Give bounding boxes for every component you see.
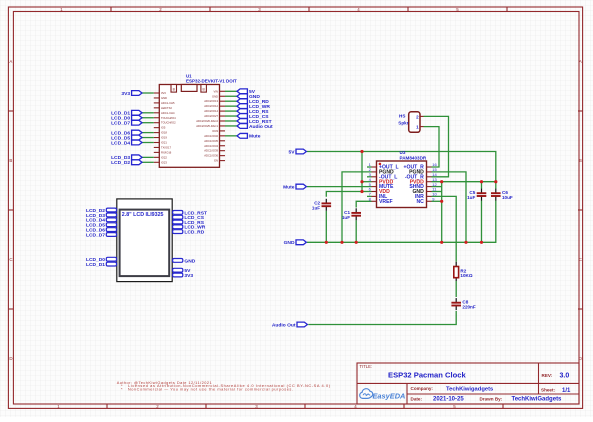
op-amp U3 PAM8403DR body: [377, 161, 427, 208]
svg-text:LCD_D4: LCD_D4: [111, 140, 130, 146]
wire SHND pin12: [432, 186, 442, 188]
LCD pin LCD_WR: [173, 225, 206, 231]
ESP32 module U1 body: [159, 85, 219, 168]
U1 reference designator: [186, 73, 192, 78]
svg-text:ADC2/IO12: ADC2/IO12: [204, 104, 218, 108]
svg-text:IO23: IO23: [161, 160, 167, 164]
net flag LCD_CS: [237, 114, 269, 120]
LCD pin GND: [173, 258, 196, 264]
wire to U1 left pin 10 (LCD_D5): [142, 137, 154, 139]
capacitor C2: [312, 199, 331, 211]
svg-text:1uF: 1uF: [312, 205, 320, 210]
U3 pin numbers right: [432, 162, 437, 201]
svg-text:ADC1-CH4: ADC1-CH4: [161, 111, 175, 115]
wire C5 top: [481, 182, 483, 189]
wire to U1 left pin 1 (3V3): [142, 92, 154, 94]
LCD pin LCD_D6: [86, 228, 117, 234]
svg-text:10uF: 10uF: [502, 195, 513, 200]
svg-text:EasyEDA: EasyEDA: [373, 392, 406, 401]
svg-text:Drawn By:: Drawn By:: [480, 396, 503, 401]
svg-text:ADC1-CH5: ADC1-CH5: [161, 101, 175, 105]
wire to U1 right pin (Audio Out): [225, 125, 237, 127]
svg-text:Mute: Mute: [283, 184, 295, 190]
U3 pin names right: [404, 165, 425, 205]
svg-text:3V3: 3V3: [161, 91, 166, 95]
LCD pin LCD_D7: [86, 232, 117, 238]
net flag LCD_D2: [111, 160, 142, 166]
net flag LCD_RD: [237, 99, 269, 105]
capacitor C5: [467, 189, 486, 201]
author / license note: [117, 380, 331, 392]
LCD pin LCD_D0: [86, 257, 117, 263]
title text: [360, 364, 572, 403]
U1 pin stubs right: [220, 91, 226, 160]
wire C2 bottom: [325, 211, 327, 243]
svg-text:TechKiwiGadgets: TechKiwiGadgets: [512, 397, 563, 403]
svg-text:HS: HS: [399, 114, 405, 119]
U3 reference designator: [400, 150, 406, 155]
svg-text:TITLE:: TITLE:: [360, 364, 373, 369]
wire to U1 right pin (Mute): [225, 135, 237, 137]
LCD pin LCD_D4: [86, 218, 117, 224]
U1 part name: [186, 79, 237, 84]
net flag Mute (amp): [283, 184, 306, 190]
net flag 5V (amp): [289, 149, 307, 155]
svg-text:TechKiwigadgets: TechKiwigadgets: [446, 386, 493, 392]
svg-text:5V: 5V: [289, 149, 296, 155]
net flag GND: [237, 94, 260, 100]
wire stub +OUT_L pin1: [367, 166, 372, 168]
svg-text:ADC1/IO36: ADC1/IO36: [204, 154, 218, 158]
wire to U1 right pin (LCD_RS): [225, 110, 237, 112]
U1 boot button right: [201, 85, 207, 93]
svg-text:VIN: VIN: [214, 89, 219, 93]
svg-text:ADC2/IO14: ADC2/IO14: [204, 109, 218, 113]
svg-text:ADC1/IO32: ADC1/IO32: [204, 134, 218, 138]
svg-text:NC: NC: [416, 199, 424, 205]
svg-text:3.0: 3.0: [560, 373, 570, 380]
svg-text:Audio Out: Audio Out: [249, 124, 273, 130]
svg-text:ADC1/IO35: ADC1/IO35: [204, 139, 218, 143]
svg-text:1/1: 1/1: [562, 388, 571, 394]
svg-text:ADC2/IO13: ADC2/IO13: [204, 99, 218, 103]
wire C1 bottom: [355, 220, 357, 242]
svg-text:LCD_D7: LCD_D7: [86, 232, 105, 238]
wire PGND left pin2: [342, 172, 372, 242]
svg-text:LCD_D2: LCD_D2: [111, 160, 130, 166]
svg-text:Sheet:: Sheet:: [541, 388, 556, 393]
U1 USB connector: [181, 85, 197, 92]
net flag LCD_D7: [111, 120, 142, 126]
U3 pin stubs: [372, 167, 432, 201]
net flag LCD_D3: [111, 155, 142, 161]
wire to U1 left pin 15 (LCD_D2): [142, 161, 154, 163]
svg-text:GND: GND: [184, 258, 195, 264]
wire speaker pin2 to -OUT_R: [424, 116, 449, 176]
title block: [357, 363, 579, 404]
net flag LCD_D4: [111, 140, 142, 146]
wire to U1 left pin 11 (LCD_D4): [142, 142, 154, 144]
svg-text:Date:: Date:: [411, 396, 423, 401]
svg-text:Mute: Mute: [249, 134, 261, 140]
svg-text:* NonCommercial — You may no: * NonCommercial — You may not use the ma…: [121, 387, 293, 392]
svg-text:10KΩ: 10KΩ: [460, 273, 472, 278]
net flag LCD_D5: [111, 135, 142, 141]
svg-text:2021-10-25: 2021-10-25: [433, 397, 464, 403]
wire GND rail: [307, 201, 496, 243]
svg-text:TX/IO17: TX/IO17: [161, 145, 172, 149]
svg-text:ESP32-DEVKIT-V1 DOIT: ESP32-DEVKIT-V1 DOIT: [186, 79, 237, 84]
wire C5 bottom: [481, 201, 483, 243]
wire R2 to C8: [455, 281, 457, 297]
svg-text:C: C: [579, 257, 582, 262]
LCD pin LCD_CS: [173, 215, 205, 221]
net flag LCD_RS: [237, 109, 269, 115]
svg-text:1uF: 1uF: [342, 215, 350, 220]
svg-text:D: D: [9, 356, 12, 361]
svg-text:TOUCH/IO2: TOUCH/IO2: [161, 121, 176, 125]
wire VREF pin8 to C1: [356, 201, 371, 207]
wire PGND right pin15: [432, 172, 467, 242]
LCD part name: [122, 212, 164, 218]
U3 part name: [400, 155, 427, 160]
wire VDD pin6: [362, 191, 372, 193]
svg-text:GND: GND: [161, 96, 167, 100]
svg-text:RX/IO16: RX/IO16: [161, 150, 172, 154]
LCD screen inner rect: [120, 210, 170, 277]
wire to U1 right pin (LCD_RD): [225, 100, 237, 102]
svg-text:REV:: REV:: [542, 373, 553, 378]
net flag LCD_D1: [111, 110, 142, 116]
wire stub INL pin7: [367, 195, 372, 197]
wire stub -OUT_L pin3: [367, 176, 372, 178]
LCD pin LCD_D2: [86, 208, 117, 214]
svg-text:A: A: [579, 59, 582, 64]
capacitor C8: [451, 298, 475, 310]
junction dots: [325, 150, 498, 244]
svg-text:1uF: 1uF: [467, 195, 475, 200]
net flag Audio Out (amp): [272, 322, 308, 328]
wire to U1 right pin (LCD_CS): [225, 115, 237, 117]
svg-text:ADC1/IO39: ADC1/IO39: [204, 149, 218, 153]
svg-text:Spkr: Spkr: [398, 121, 408, 126]
wire PVDD left pin4: [362, 181, 372, 183]
wire to U1 left pin 6 (LCD_D0): [142, 117, 154, 119]
svg-text:PAM8403DR: PAM8403DR: [400, 155, 427, 160]
U1 pin stubs left: [154, 93, 160, 162]
net flag LCD_D6: [111, 130, 142, 136]
net flag GND (amp): [284, 240, 307, 246]
svg-text:LCD_D7: LCD_D7: [111, 121, 130, 127]
wire PVDD right rail pin13: [432, 181, 496, 183]
wire INR pin10 to R2: [432, 196, 457, 261]
wire to U1 left pin 5 (LCD_D1): [142, 112, 154, 114]
svg-text:GND: GND: [284, 240, 295, 246]
LCD pin 5V: [173, 268, 192, 274]
svg-text:ESP32 Pacman Clock: ESP32 Pacman Clock: [388, 371, 466, 380]
svg-text:3V3: 3V3: [121, 91, 130, 97]
net flag LCD_RST: [237, 119, 272, 125]
svg-text:IO22: IO22: [161, 155, 167, 159]
EasyEDA logo: [360, 389, 406, 401]
wire to U1 left pin 9 (LCD_D6): [142, 132, 154, 134]
svg-text:IO21: IO21: [161, 141, 167, 145]
wire NC pin9: [432, 200, 442, 202]
resistor R2: [454, 262, 473, 281]
wire to U1 left pin 7 (LCD_D7): [142, 122, 154, 124]
LCD module outer body: [117, 199, 172, 282]
wire C2 top to VDD node: [326, 192, 362, 197]
wire Mute to pin5: [307, 186, 372, 188]
svg-text:LCD_D1: LCD_D1: [86, 262, 105, 268]
LCD pin LCD_RD: [173, 230, 205, 236]
LCD pin LCD_D5: [86, 223, 117, 229]
svg-text:B: B: [9, 158, 12, 163]
wire to U1 right pin (LCD_RST): [225, 120, 237, 122]
net flag LCD_WR: [237, 104, 270, 110]
U1 boot button left: [171, 85, 177, 93]
svg-text:ADC2/IO27: ADC2/IO27: [204, 114, 218, 118]
svg-text:EN: EN: [214, 159, 218, 163]
svg-text:B: B: [579, 158, 582, 163]
wire 5V rail: [307, 152, 496, 182]
net flag 5V: [237, 89, 256, 95]
svg-text:ADC2/IO25-DAC1: ADC2/IO25-DAC1: [196, 124, 218, 128]
svg-text:Audio Out: Audio Out: [272, 322, 296, 328]
wire GND pin11: [432, 191, 442, 193]
LCD pin LCD_D3: [86, 213, 117, 219]
svg-text:2.8" LCD ILI9325: 2.8" LCD ILI9325: [122, 212, 164, 218]
U3 pin names left: [379, 165, 399, 205]
wire to U1 right pin (GND): [225, 95, 237, 97]
LCD pin 3V3: [173, 273, 194, 279]
wire to U1 right pin (5V): [225, 90, 237, 92]
LCD pin LCD_RST: [173, 210, 207, 216]
svg-text:GND: GND: [212, 94, 218, 98]
svg-text:A: A: [9, 59, 12, 64]
svg-text:LED/TX2: LED/TX2: [161, 106, 172, 110]
capacitor C6: [491, 189, 513, 201]
svg-text:ADC2/IO26-DAC2: ADC2/IO26-DAC2: [196, 119, 218, 123]
wire to U1 left pin 14 (LCD_D3): [142, 156, 154, 158]
svg-text:D: D: [579, 356, 582, 361]
net flag Mute: [237, 133, 261, 139]
wire to U1 right pin (LCD_WR): [225, 105, 237, 107]
svg-text:3V3: 3V3: [184, 273, 193, 279]
U1 pin names left column: [161, 91, 176, 164]
wire speaker pin1 to +OUT_R: [424, 127, 440, 167]
net flag Audio Out: [237, 124, 273, 130]
svg-text:IO18: IO18: [161, 131, 167, 135]
svg-text:Company:: Company:: [411, 386, 434, 391]
svg-text:220nF: 220nF: [462, 305, 475, 310]
svg-text:LCD_RD: LCD_RD: [184, 230, 204, 236]
svg-text:TOUCH/IO4: TOUCH/IO4: [161, 116, 176, 120]
svg-text:VREF: VREF: [379, 199, 393, 205]
svg-text:C: C: [9, 257, 12, 262]
wire PVDD to GND-rail vertical: [441, 182, 443, 243]
net flag 3V3: [121, 91, 142, 97]
U3 pin numbers left: [369, 162, 372, 201]
wire C8 to Audio Out: [308, 311, 456, 325]
wire C6 top: [495, 182, 497, 189]
LCD pin LCD_D1: [86, 262, 117, 268]
U1 pin names right column: [196, 89, 218, 162]
net flag LCD_D0: [111, 115, 142, 121]
svg-text:IO33: IO33: [212, 129, 218, 133]
svg-text:IO5: IO5: [161, 126, 166, 130]
capacitor C1: [342, 208, 361, 220]
wire 5V drop to VDD: [361, 152, 363, 192]
svg-text:ADC1/IO34: ADC1/IO34: [204, 144, 218, 148]
svg-text:IO19: IO19: [161, 136, 167, 140]
LCD pin LCD_RS: [173, 220, 205, 226]
speaker HS: [398, 112, 423, 133]
